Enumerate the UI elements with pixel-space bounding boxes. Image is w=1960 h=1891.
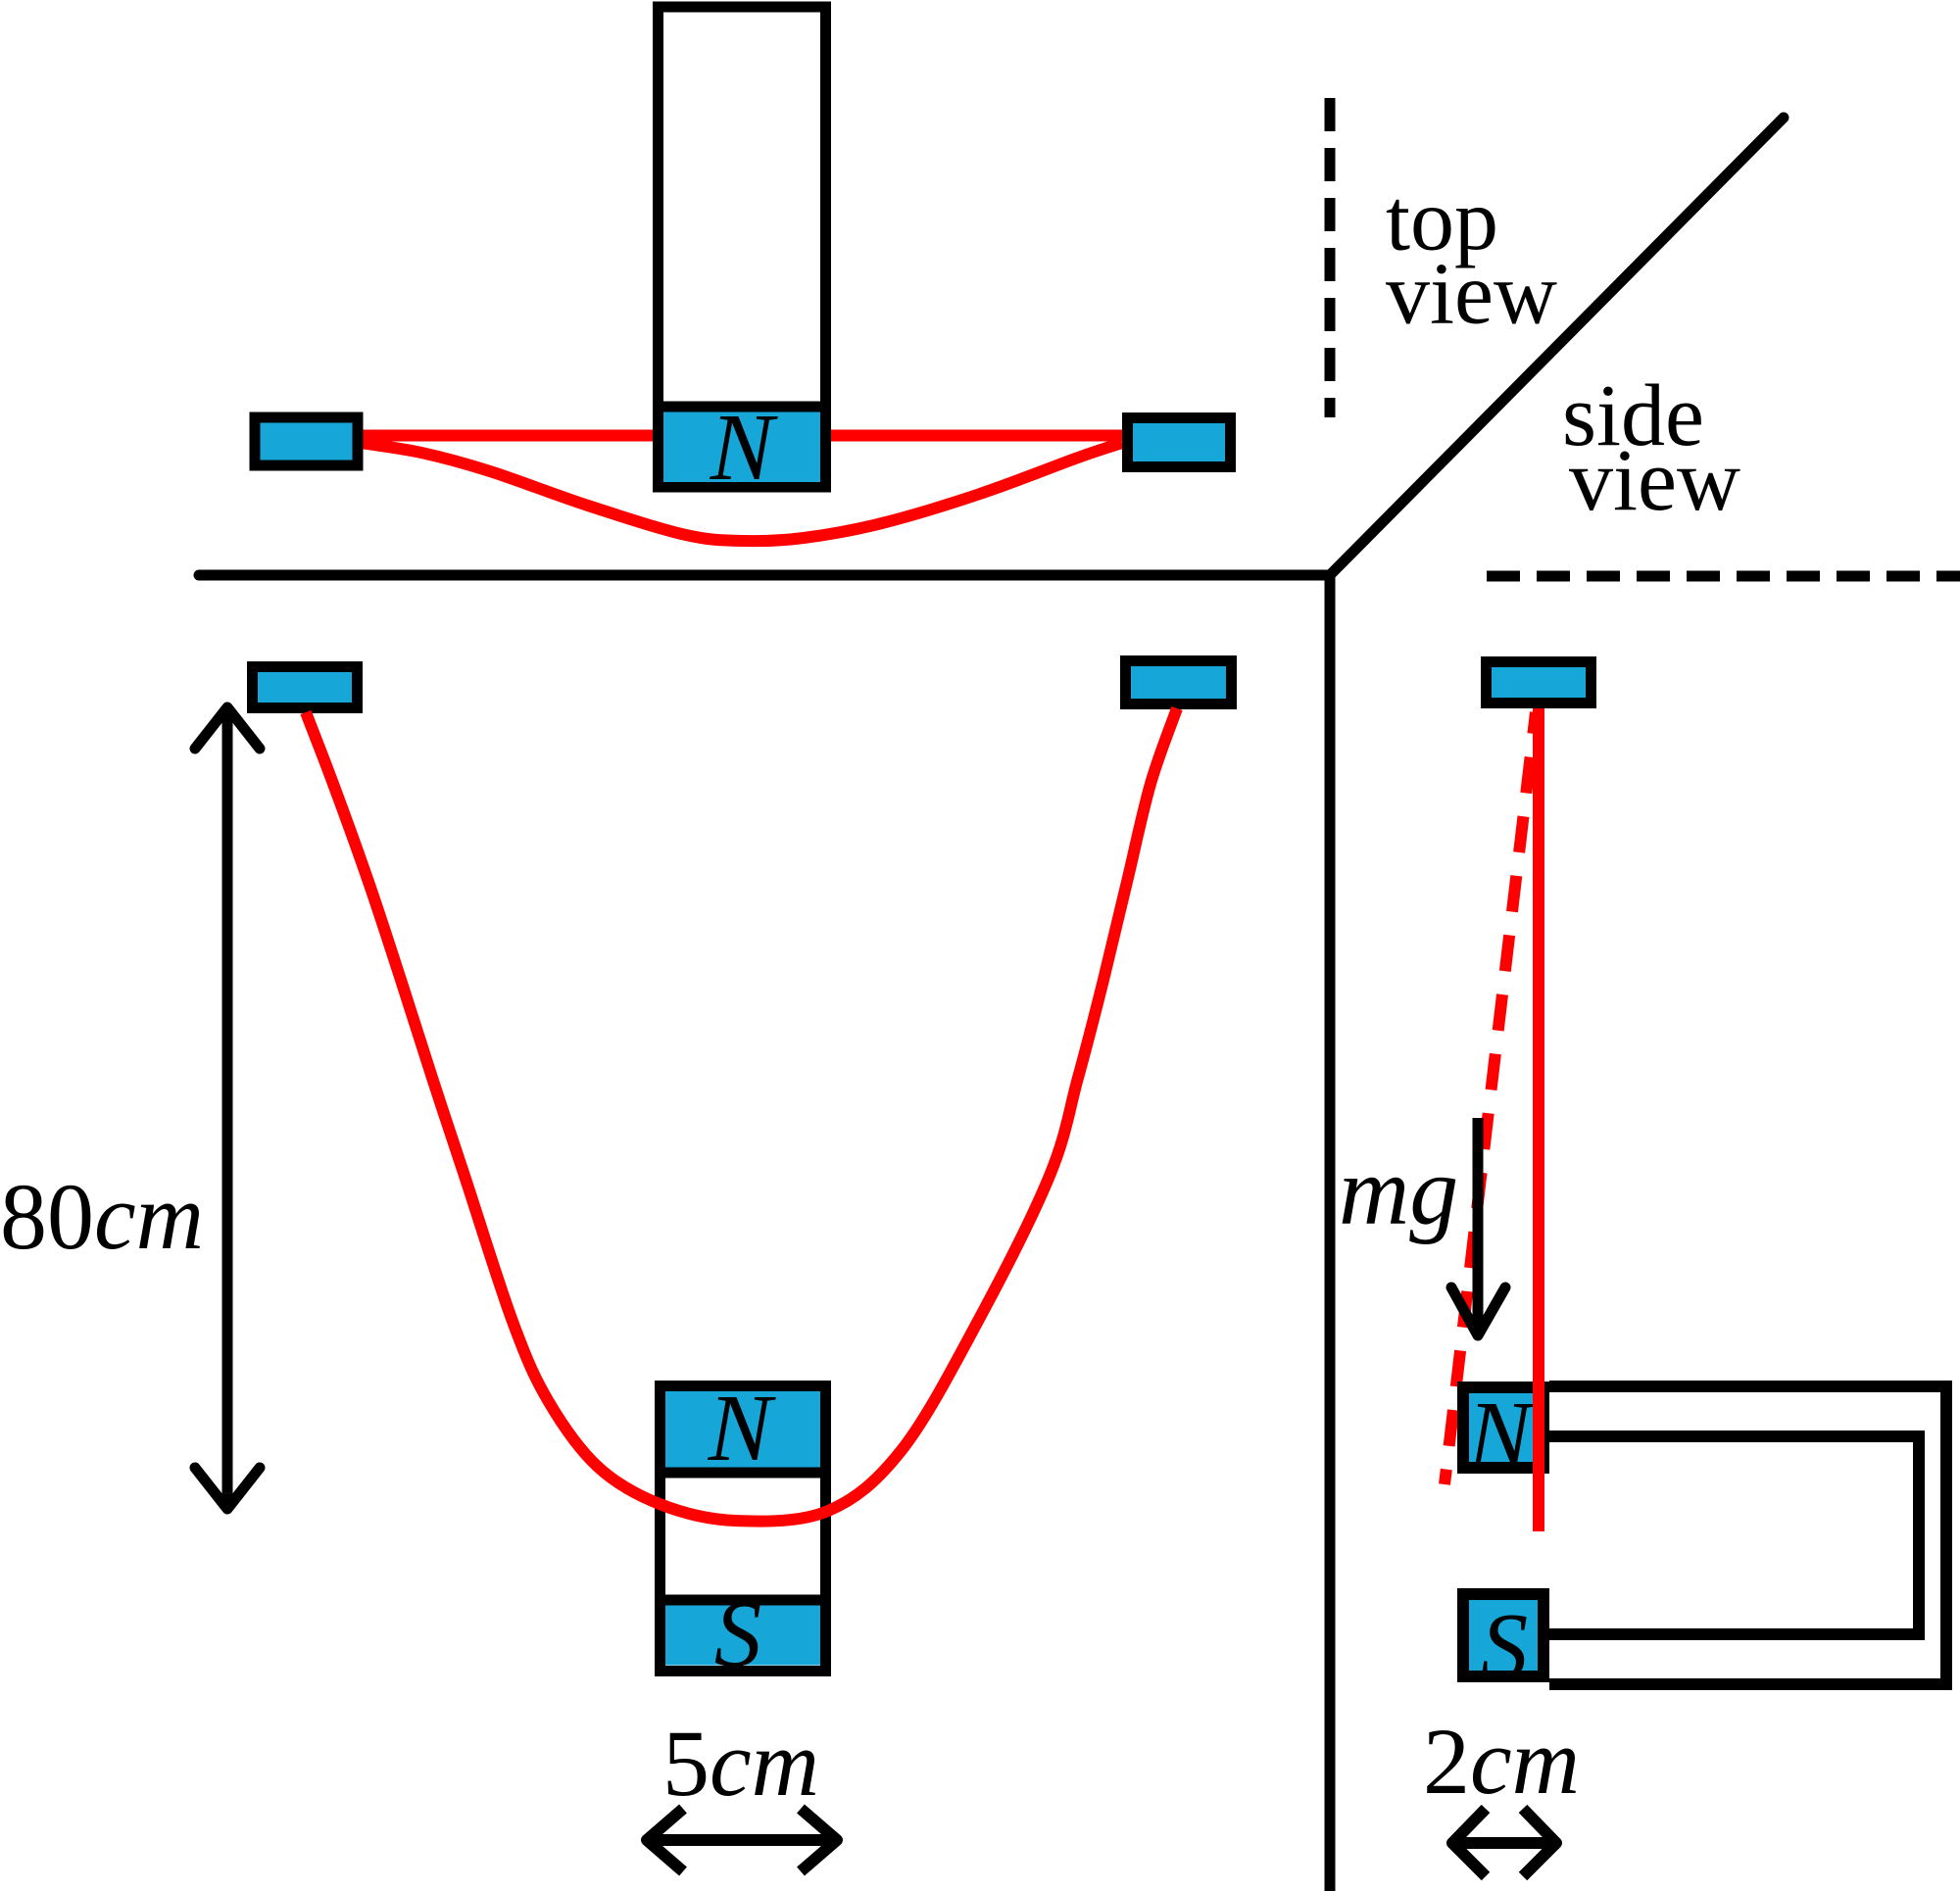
svg-text:view: view	[1386, 246, 1557, 343]
svg-text:80cm: 80cm	[0, 1164, 204, 1269]
svg-text:N: N	[708, 1376, 777, 1480]
svg-text:S: S	[1481, 1594, 1529, 1699]
svg-text:S: S	[714, 1581, 762, 1686]
svg-text:view: view	[1569, 432, 1740, 529]
svg-text:N: N	[1467, 1382, 1537, 1487]
svg-text:N: N	[710, 395, 779, 500]
svg-text:5cm: 5cm	[662, 1711, 819, 1816]
svg-text:mg: mg	[1339, 1137, 1458, 1245]
svg-text:2cm: 2cm	[1423, 1709, 1580, 1814]
